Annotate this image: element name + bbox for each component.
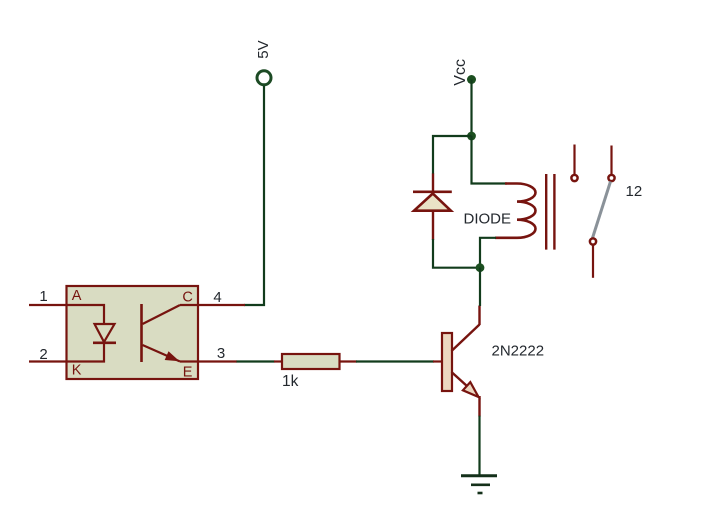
svg-text:E: E: [183, 365, 193, 381]
optocoupler U1 body: [67, 286, 199, 379]
ground: [461, 476, 497, 493]
5V power terminal: [255, 40, 272, 84]
pin 1 wire: [29, 304, 67, 306]
wire Vcc down to junction: [470, 80, 472, 137]
svg-text:A: A: [72, 288, 82, 304]
transistor base pin: [433, 360, 443, 362]
svg-text:C: C: [182, 290, 192, 306]
wire emitter to ground: [478, 416, 480, 476]
svg-text:Vcc: Vcc: [452, 59, 469, 86]
wire 5V to pin4: [244, 86, 264, 305]
svg-text:DIODE: DIODE: [464, 211, 512, 228]
switch blade: [593, 182, 611, 239]
relay contact A circle: [571, 175, 577, 181]
pin 3 wire: [198, 360, 237, 362]
svg-text:12: 12: [626, 183, 643, 200]
svg-text:2: 2: [39, 346, 47, 363]
flyback diode D1: [413, 174, 452, 241]
opto emitter arrow: [165, 351, 180, 361]
wire pin4 red segment: [198, 304, 245, 306]
wire resistor to transistor base: [356, 360, 434, 362]
relay coil: [495, 184, 536, 238]
svg-text:2N2222: 2N2222: [492, 343, 545, 360]
wire pin3 to resistor: [237, 360, 275, 362]
resistor R1 1k: [282, 354, 340, 369]
svg-text:4: 4: [213, 289, 221, 306]
svg-text:5V: 5V: [255, 40, 272, 58]
svg-text:3: 3: [217, 345, 225, 362]
pin 2 wire: [29, 360, 67, 362]
relay core bars: [545, 174, 547, 250]
svg-text:1k: 1k: [282, 373, 299, 390]
relay pole circle: [590, 238, 596, 244]
wire diode bottom to junction T2: [433, 239, 480, 268]
transistor Q1 2N2222: [442, 306, 480, 417]
opto internal LED: [67, 305, 117, 362]
opto internal phototransistor: [142, 304, 199, 362]
wire T2 to collector: [479, 268, 481, 306]
relay contact B circle: [608, 175, 614, 181]
relay pole lead: [592, 246, 594, 278]
svg-text:K: K: [72, 363, 82, 379]
relay contact A lead: [573, 145, 575, 175]
wire junction to diode branch: [433, 136, 472, 174]
resistor right pin: [340, 360, 358, 362]
junction T2: [476, 263, 485, 272]
wire junction to coil top: [472, 136, 508, 184]
svg-text:1: 1: [39, 288, 47, 305]
relay contact B lead: [610, 146, 612, 175]
junction T1: [467, 132, 476, 141]
resistor left pin: [274, 360, 283, 362]
wire coil bottom to junction T2: [480, 238, 496, 268]
Vcc node: [452, 59, 476, 86]
